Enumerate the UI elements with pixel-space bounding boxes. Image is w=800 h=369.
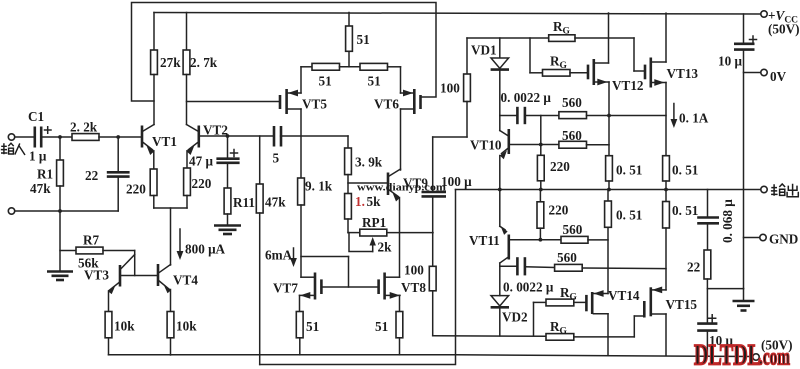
- mosfet VT15: [643, 301, 646, 318]
- svg-text:220: 220: [192, 176, 212, 191]
- resistor 51 vertical top: [348, 13, 350, 27]
- svg-text:220: 220: [126, 182, 146, 197]
- svg-text:9. 1k: 9. 1k: [305, 179, 333, 194]
- svg-text:51: 51: [375, 319, 388, 334]
- resistor 2.2k: [72, 134, 99, 141]
- resistor 560 no4: [555, 264, 583, 271]
- svg-text:51: 51: [357, 32, 370, 47]
- label 输出 output: [771, 184, 798, 197]
- resistor 0.51 no4: [665, 190, 667, 202]
- svg-text:220: 220: [550, 159, 570, 174]
- svg-text:2. 2k: 2. 2k: [70, 120, 98, 135]
- svg-text:0. 068 μ: 0. 068 μ: [720, 199, 735, 243]
- svg-text:0. 0022 μ: 0. 0022 μ: [503, 280, 554, 295]
- svg-text:100: 100: [440, 81, 460, 96]
- resistor 3.9k: [347, 136, 349, 148]
- transistor VT3: [119, 265, 122, 287]
- svg-text:800 μA: 800 μA: [185, 242, 226, 257]
- svg-text:51: 51: [368, 74, 381, 89]
- resistor 560 no1: [559, 112, 587, 119]
- resistor 1.5k: [345, 194, 352, 220]
- svg-text:0. 51: 0. 51: [616, 163, 642, 178]
- capacitor 5: [273, 126, 276, 147]
- resistor 220 (VT2 emitter): [184, 168, 191, 196]
- resistor 220 lower: [539, 190, 541, 202]
- fet VT7: [314, 273, 317, 300]
- wire 100u/100 chain top: [433, 136, 467, 138]
- ground right: [743, 289, 745, 301]
- svg-text:VT12: VT12: [612, 78, 644, 93]
- potentiometer RP1 2k: [348, 232, 360, 234]
- resistor 220 (VT1 emitter): [150, 169, 157, 196]
- resistor 0.51 no2: [663, 156, 670, 181]
- resistor RG 2: [529, 38, 531, 73]
- fet VT8: [383, 273, 386, 300]
- node -Vcc terminal: [753, 354, 759, 360]
- wire top outer loop (VT1 collector to VT6 gate): [132, 3, 437, 102]
- resistor 220 upper: [540, 145, 542, 156]
- capacitor 10u top-right: [743, 14, 745, 44]
- svg-text:100: 100: [404, 263, 424, 278]
- svg-text:22: 22: [85, 168, 99, 183]
- transistor VT10: [499, 116, 501, 131]
- resistor 10k left: [105, 312, 112, 338]
- svg-text:VT3: VT3: [84, 268, 109, 283]
- resistor 560 no2: [541, 144, 559, 146]
- mosfet VT14: [585, 295, 588, 311]
- resistor 560 no3: [540, 239, 561, 241]
- svg-text:22: 22: [687, 260, 701, 275]
- svg-text:0. 51: 0. 51: [672, 203, 698, 218]
- capacitor 22: [117, 137, 119, 172]
- svg-text:47k: 47k: [265, 195, 286, 210]
- svg-text:VT14: VT14: [608, 288, 640, 303]
- svg-text:VT13: VT13: [667, 66, 699, 81]
- svg-text:1.: 1.: [355, 194, 365, 209]
- svg-text:10 μ: 10 μ: [718, 54, 742, 69]
- svg-text:R1: R1: [37, 167, 53, 182]
- node input terminal 1: [8, 134, 14, 140]
- capacitor 47u: [227, 136, 229, 159]
- resistor R1 47k: [59, 137, 61, 160]
- svg-text:VT6: VT6: [374, 97, 399, 112]
- svg-text:0. 0022 μ: 0. 0022 μ: [501, 90, 552, 105]
- resistor 9.1k: [298, 178, 305, 205]
- transistor VT2: [198, 126, 201, 148]
- svg-text:VT8: VT8: [401, 280, 426, 295]
- svg-text:VT11: VT11: [469, 233, 500, 248]
- svg-text:VT7: VT7: [273, 281, 298, 296]
- capacitor 0.0022u upper: [500, 115, 518, 117]
- fet VT5: [279, 95, 282, 109]
- wire input top: [15, 136, 35, 138]
- resistor 51 right horiz: [360, 63, 388, 70]
- capacitor 10u bottom: [697, 322, 717, 325]
- svg-text:560: 560: [557, 250, 577, 265]
- diode VD2: [491, 296, 509, 306]
- current arrow 6mA: [293, 248, 295, 261]
- wire VT7-VT8 gate line: [321, 286, 378, 288]
- svg-text:0. 1A: 0. 1A: [679, 111, 709, 126]
- svg-text:VD2: VD2: [502, 310, 528, 325]
- resistor RG 3: [533, 302, 535, 336]
- resistor 47k (feedback): [259, 136, 261, 184]
- svg-text:51: 51: [319, 74, 332, 89]
- resistor 27k: [153, 13, 155, 51]
- node VCC terminal: [761, 11, 767, 17]
- wire to VT1 base: [41, 136, 72, 138]
- svg-text:5: 5: [273, 151, 280, 166]
- transistor VT9: [387, 173, 390, 196]
- wire cap to base junction: [540, 116, 542, 145]
- wire emitter merge to VT4 collector: [154, 207, 187, 209]
- svg-text:VT4: VT4: [173, 273, 198, 288]
- transistor VT1: [141, 126, 144, 148]
- wire +Vcc rail: [154, 13, 761, 15]
- resistor 100 upper: [466, 38, 468, 74]
- current arrow 800uA: [179, 229, 181, 253]
- resistor 100 mid: [429, 266, 436, 291]
- node 0V terminal: [744, 72, 761, 74]
- svg-text:5k: 5k: [367, 194, 382, 209]
- svg-text:10k: 10k: [176, 319, 197, 334]
- wire VT2 base node: [200, 135, 274, 137]
- wire bottom rail A: [109, 355, 753, 357]
- capacitor 0.0022u lower: [500, 265, 518, 267]
- svg-text:(50V): (50V): [768, 22, 800, 37]
- svg-text:10k: 10k: [114, 319, 135, 334]
- svg-text:VT10: VT10: [470, 138, 502, 153]
- transistor VT4: [157, 264, 160, 286]
- svg-text:2. 7k: 2. 7k: [190, 55, 218, 70]
- resistor 10k right: [167, 312, 174, 338]
- node input terminal 2: [8, 208, 14, 214]
- resistor 22 right: [704, 250, 711, 279]
- svg-text:R7: R7: [83, 233, 100, 248]
- wire bottom rail B: [260, 355, 456, 365]
- svg-text:R11: R11: [233, 195, 255, 210]
- resistor RG 4: [546, 334, 574, 341]
- svg-text:www.dianyp.com: www.dianyp.com: [357, 183, 446, 194]
- resistor 0.51 no1: [606, 156, 613, 181]
- current arrow 0.1A: [673, 104, 675, 122]
- svg-text:VT2: VT2: [203, 123, 228, 138]
- mosfet VT12: [587, 65, 590, 80]
- svg-text:51: 51: [306, 319, 319, 334]
- node output terminal: [761, 186, 767, 192]
- resistor 0.51 no3: [607, 190, 609, 202]
- svg-text:3. 9k: 3. 9k: [355, 155, 383, 170]
- resistor RG 1: [549, 35, 575, 42]
- diode VD1: [499, 38, 501, 57]
- wire VT2 collector to VT5 gate: [187, 101, 280, 103]
- svg-text:VT1: VT1: [152, 134, 177, 149]
- resistor 51 left horiz: [301, 66, 312, 68]
- svg-text:1 μ: 1 μ: [29, 149, 47, 164]
- resistor 51 (VT7 source): [296, 312, 303, 338]
- ground R11: [214, 224, 241, 227]
- svg-text:0. 51: 0. 51: [616, 208, 642, 223]
- svg-text:220: 220: [549, 203, 569, 218]
- wire output rail: [456, 189, 761, 191]
- transistor VT11: [499, 190, 501, 227]
- svg-text:VD1: VD1: [471, 43, 497, 58]
- capacitor 0.068u: [707, 190, 709, 218]
- capacitor C1: [33, 127, 36, 148]
- svg-text:2k: 2k: [378, 240, 393, 255]
- svg-text:6mA: 6mA: [265, 248, 293, 263]
- svg-text:0V: 0V: [770, 69, 787, 84]
- svg-text:560: 560: [563, 222, 583, 237]
- svg-text:27k: 27k: [160, 55, 181, 70]
- label 输入 input: [1, 143, 25, 155]
- node GND terminal: [744, 237, 760, 239]
- svg-text:47k: 47k: [30, 181, 51, 196]
- svg-text:.com: .com: [759, 345, 790, 369]
- wire 6mA path to gates: [301, 256, 349, 258]
- resistor 2.7k: [186, 13, 188, 51]
- wire VT9 base: [348, 182, 387, 184]
- svg-text:C1: C1: [28, 109, 44, 124]
- resistor R7 56k: [60, 250, 76, 252]
- capacitor 100u: [422, 191, 447, 194]
- mosfet VT13: [644, 65, 647, 80]
- svg-text:VT5: VT5: [302, 97, 327, 112]
- svg-text:560: 560: [562, 95, 582, 110]
- svg-text:GND: GND: [769, 232, 798, 247]
- svg-text:DLTDL: DLTDL: [694, 339, 761, 369]
- wire to RG bottom pair: [433, 335, 546, 338]
- ground input: [59, 211, 61, 272]
- svg-text:RP1: RP1: [362, 215, 386, 230]
- fet VT6: [419, 95, 422, 109]
- svg-text:47 μ: 47 μ: [189, 154, 213, 169]
- svg-text:VT15: VT15: [666, 297, 698, 312]
- wire VD1/RG upper bus: [467, 37, 549, 39]
- resistor 51 (VT8 source): [396, 312, 403, 338]
- svg-text:0. 51: 0. 51: [672, 163, 698, 178]
- resistor R11: [224, 188, 231, 214]
- svg-text:560: 560: [562, 128, 582, 143]
